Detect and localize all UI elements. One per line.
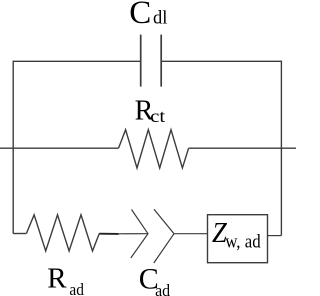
capacitor C2 chevron plate 2 (C_ad) — [154, 209, 174, 263]
svg-text:R: R — [47, 263, 67, 295]
svg-text:dl: dl — [153, 9, 167, 29]
wire bottom-left lead — [13, 233, 26, 235]
label C_ad — [139, 262, 171, 296]
label Z_w,ad — [212, 218, 261, 253]
svg-text:C: C — [129, 0, 151, 31]
capacitor C1 plate left (C_dl) — [140, 35, 142, 87]
svg-text:ad: ad — [69, 280, 84, 296]
svg-text:ad: ad — [155, 281, 170, 296]
wire chevron to box — [174, 233, 208, 235]
wire left vertical — [12, 61, 14, 234]
impedance box Z_w,ad — [208, 215, 268, 263]
resistor R1 (R_ct zigzag) — [119, 130, 189, 168]
wire right vertical — [280, 61, 282, 236]
capacitor C1 plate right (C_dl) — [160, 35, 162, 87]
resistor R2 (R_ad zigzag) — [26, 215, 99, 251]
capacitor C2 chevron plate 1 (C_ad) — [131, 210, 148, 259]
wire lead to chevron — [119, 233, 149, 235]
svg-text:ct: ct — [150, 106, 165, 126]
wire top-left — [13, 60, 141, 62]
wire lead thick segment after R_ad — [99, 233, 118, 235]
svg-text:w, ad: w, ad — [225, 233, 261, 253]
label R_ad — [47, 263, 84, 296]
label R_ct — [135, 95, 166, 126]
wire box to right vertical — [268, 235, 282, 237]
label C_dl — [129, 0, 167, 31]
wire middle-right — [189, 147, 296, 149]
wire top-right — [161, 60, 281, 62]
wire middle-left — [0, 147, 119, 149]
